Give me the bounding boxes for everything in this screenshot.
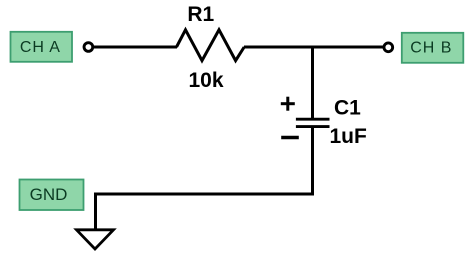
wire: capacitor bottom to ground rail [311, 127, 314, 196]
port label GND [20, 180, 84, 211]
port label CH B [402, 33, 464, 63]
wire: ground rail horizontal [96, 193, 315, 196]
ground [77, 230, 114, 249]
terminal circle B [384, 43, 393, 52]
svg-text:1uF: 1uF [330, 125, 368, 148]
wire: stub down to ground symbol [94, 193, 97, 230]
polarity plus sign [281, 97, 295, 111]
terminal circle A [84, 43, 93, 52]
resistor R1 [177, 30, 245, 61]
svg-text:GND: GND [30, 185, 68, 204]
polarity minus sign [281, 136, 299, 139]
svg-text:CH A: CH A [20, 39, 61, 56]
wire: resistor to CH B terminal [244, 46, 383, 49]
svg-text:CH B: CH B [410, 39, 452, 56]
svg-text:R1: R1 [187, 3, 214, 26]
svg-text:C1: C1 [334, 96, 361, 119]
capacitor C1 top plate [296, 118, 330, 121]
svg-text:10k: 10k [188, 69, 223, 92]
capacitor C1 bottom plate [296, 125, 330, 128]
node: junction at top of C1 branch [311, 46, 314, 119]
port label CH A [11, 32, 73, 62]
wire: CH A terminal to resistor [93, 46, 177, 49]
